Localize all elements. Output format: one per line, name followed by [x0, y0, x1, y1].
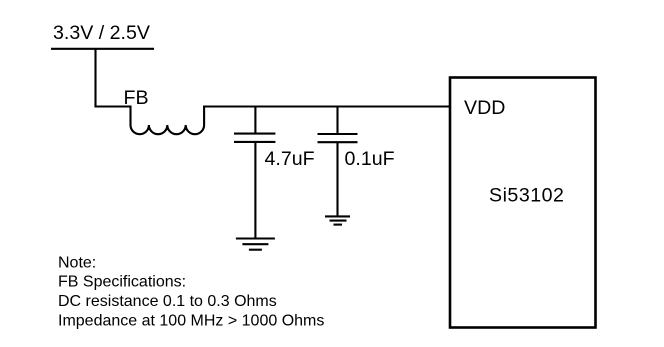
svg-text:0.1uF: 0.1uF — [345, 148, 395, 170]
capacitor C1 4.7uF — [234, 107, 275, 239]
ground (C1) — [236, 239, 275, 250]
svg-text:Impedance at 100 MHz > 1000 Oh: Impedance at 100 MHz > 1000 Ohms — [58, 313, 324, 330]
note text — [58, 254, 324, 329]
ground (C2) — [325, 216, 350, 224]
svg-text:FB Specifications:: FB Specifications: — [58, 274, 186, 291]
svg-text:Si53102: Si53102 — [489, 185, 564, 207]
IC U1 Si53102 box — [450, 78, 596, 328]
svg-text:VDD: VDD — [464, 97, 505, 119]
svg-text:Note:: Note: — [58, 254, 96, 271]
svg-text:4.7uF: 4.7uF — [265, 148, 315, 170]
wire: rail down and over to FB — [96, 49, 131, 107]
wire: FB to VDD pin — [203, 105, 450, 107]
capacitor C2 0.1uF — [318, 107, 358, 217]
svg-text:3.3V / 2.5V: 3.3V / 2.5V — [53, 22, 150, 44]
svg-text:DC resistance 0.1 to 0.3 Ohms: DC resistance 0.1 to 0.3 Ohms — [58, 293, 277, 310]
svg-text:FB: FB — [124, 87, 149, 109]
ferrite bead FB (inductor coil) — [131, 106, 205, 135]
power rail line — [51, 48, 154, 50]
